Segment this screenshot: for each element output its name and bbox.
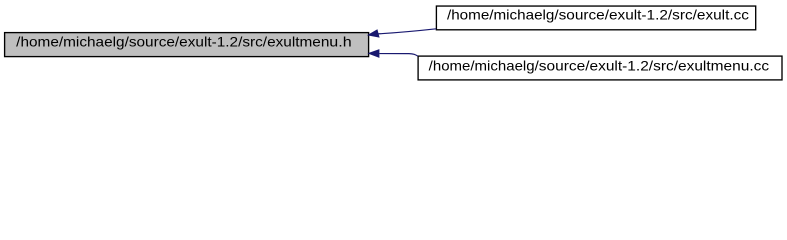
node exultmenu.cc (bottom white box) [418,56,782,80]
arrowhead of edge exult.cc -> exultmenu.h [368,30,379,37]
edge exultmenu.cc -> exultmenu.h (wire) [380,54,418,57]
svg-text:/home/michaelg/: /home/michaelg/ [447,8,559,23]
svg-text:source/exult-1.2/src/exultmenu: source/exult-1.2/src/exultmenu.cc [539,58,769,73]
node exultmenu.h (current file, gray box) [5,33,369,57]
arrowhead of edge exultmenu.cc -> exultmenu.h [369,50,379,57]
node exult.cc (top white box) [436,6,755,30]
svg-text:/home/michaelg/source/exult-1.: /home/michaelg/source/exult-1.2/src/exul… [16,34,329,49]
edge exult.cc -> exultmenu.h (wire) [378,29,436,34]
svg-text:/home/michaelg/: /home/michaelg/ [429,58,539,73]
svg-text:source/exult-1.2/src/exult.cc: source/exult-1.2/src/exult.cc [559,8,750,23]
svg-text:u.h: u.h [329,34,351,49]
